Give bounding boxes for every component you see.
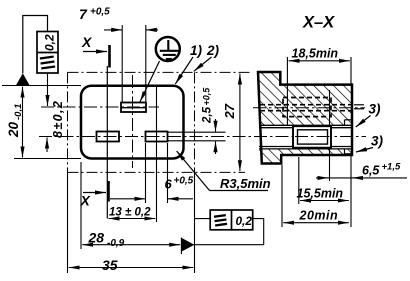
svg-text:+0,5: +0,5: [90, 7, 110, 18]
svg-text:0,2: 0,2: [236, 214, 253, 228]
svg-text:X: X: [81, 34, 93, 50]
svg-text:2): 2): [206, 43, 220, 58]
svg-text:35: 35: [102, 257, 118, 273]
svg-text:+1,5: +1,5: [382, 162, 401, 173]
svg-text:13 ± 0,2: 13 ± 0,2: [109, 207, 151, 219]
svg-text:27: 27: [222, 103, 237, 119]
svg-text:15,5min: 15,5min: [297, 187, 344, 201]
svg-text:R3,5min: R3,5min: [220, 176, 271, 191]
svg-text:3): 3): [369, 102, 382, 117]
svg-text:2,5: 2,5: [202, 106, 214, 124]
svg-text:28: 28: [88, 230, 105, 246]
svg-text:1): 1): [190, 43, 203, 58]
svg-text:7: 7: [79, 6, 88, 22]
svg-text:+0,5: +0,5: [202, 87, 212, 106]
svg-text:20min: 20min: [299, 209, 339, 223]
svg-text:+0,5: +0,5: [174, 176, 194, 187]
svg-text:-0,9: -0,9: [107, 238, 125, 249]
svg-text:-0,1: -0,1: [13, 104, 24, 120]
svg-text:6,5: 6,5: [362, 164, 380, 178]
svg-text:6: 6: [165, 177, 173, 192]
svg-text:0,2: 0,2: [43, 34, 57, 51]
svg-text:18,5min: 18,5min: [292, 47, 339, 61]
svg-text:X–X: X–X: [302, 14, 335, 32]
svg-text:20: 20: [6, 121, 21, 138]
svg-text:3): 3): [371, 134, 384, 149]
svg-text:8±0,2: 8±0,2: [51, 100, 65, 138]
